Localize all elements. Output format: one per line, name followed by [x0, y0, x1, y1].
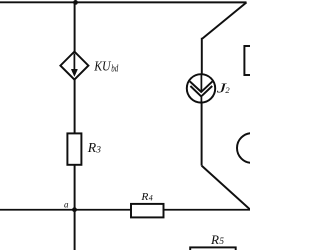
current source J2 (circle) — [187, 74, 215, 102]
resistor R4 — [131, 204, 164, 218]
label J2 — [217, 80, 231, 95]
wire: source KUbd to resistor R3 — [74, 80, 76, 134]
junction: top node dot — [73, 0, 78, 5]
arrow chevron lower of J2 — [190, 86, 212, 96]
label R3 — [87, 141, 101, 156]
label R4 — [140, 191, 152, 203]
svg-text:R: R — [140, 191, 148, 203]
wire: top-right diagonal segment — [202, 2, 246, 38]
resistor R2 (partial, right edge) — [244, 46, 256, 75]
wire: top horizontal net — [0, 1, 247, 3]
label R5 — [210, 233, 224, 247]
wire stub inside J2 top — [200, 74, 202, 90]
svg-text:KU: KU — [93, 60, 111, 75]
wire: resistor R3 to node a — [74, 165, 76, 210]
junction: node a dot — [72, 207, 77, 212]
svg-text:5: 5 — [219, 236, 224, 246]
arrow chevron upper of J2 — [190, 81, 213, 92]
wire: vertical from top node to source KUbd — [74, 2, 76, 52]
wire: vertical from diagonal into current source J2 — [201, 38, 203, 75]
value label KUbd — [93, 60, 119, 75]
wire stub inside J2 bottom — [200, 97, 202, 103]
wire: R4 to right edge — [164, 209, 251, 211]
dependent source KUbd (diamond) — [60, 52, 88, 80]
wire: node a down to bottom edge — [74, 210, 76, 250]
wire: J2 to bottom-right diagonal — [201, 103, 203, 166]
wire: bottom-right diagonal segment — [202, 166, 251, 210]
arrow inside source KUbd — [71, 54, 77, 77]
svg-text:R: R — [210, 233, 219, 247]
wire: bottom horizontal net left of R4 — [0, 209, 132, 211]
svg-text:bd: bd — [111, 63, 119, 74]
svg-text:a: a — [64, 200, 69, 210]
source circle (partial, right edge) — [237, 133, 267, 163]
svg-text:4: 4 — [149, 194, 153, 203]
svg-text:R: R — [87, 141, 97, 156]
resistor R5 (partial, bottom edge) — [190, 247, 236, 250]
resistor R3 — [67, 133, 81, 164]
svg-text:3: 3 — [95, 146, 101, 156]
svg-text:2: 2 — [225, 85, 230, 95]
